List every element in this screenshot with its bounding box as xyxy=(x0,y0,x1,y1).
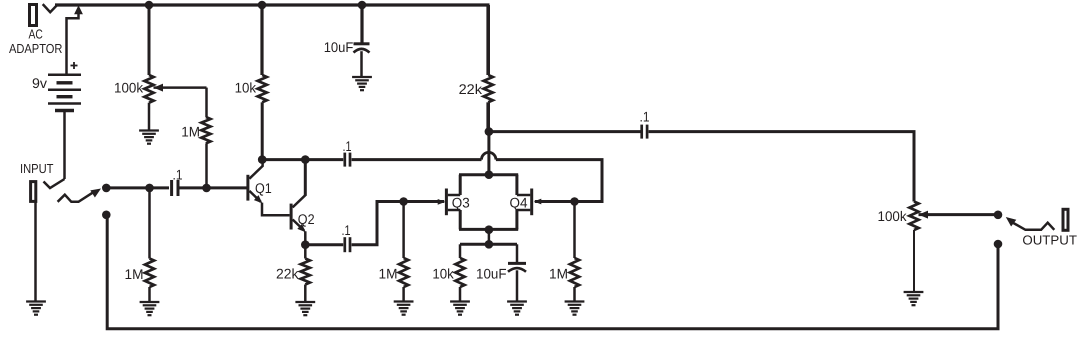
ground (22k Q2) xyxy=(295,301,315,303)
input switch arrow xyxy=(58,193,93,202)
node: input signal xyxy=(102,184,111,193)
AC adaptor jack xyxy=(30,5,37,26)
svg-text:10k: 10k xyxy=(432,266,454,282)
resistor 1M (Q4 base to ground) xyxy=(573,202,576,259)
capacitor .1 (Q2 emitter to Q3 base) xyxy=(343,237,346,252)
node: Q2 emitter xyxy=(301,240,310,249)
svg-text:1M: 1M xyxy=(181,123,200,139)
capacitor .1 (interstage feedback) xyxy=(343,153,346,167)
transistor Q1 xyxy=(246,175,249,201)
ground (10k timing) xyxy=(450,300,470,302)
node: rail / 10uF xyxy=(358,1,367,10)
ground (10uF filter) xyxy=(352,76,372,78)
node: box top xyxy=(485,170,494,179)
svg-text:1M: 1M xyxy=(125,266,144,282)
svg-text:.1: .1 xyxy=(173,166,183,182)
transistor Q3 xyxy=(445,189,448,216)
svg-text:100k: 100k xyxy=(114,80,144,96)
ground (volume pot) xyxy=(904,291,924,293)
wire: box top to 22k node xyxy=(487,132,490,175)
node: box bottom xyxy=(485,225,494,234)
wire: V+ top rail xyxy=(55,3,490,6)
svg-text:10uF: 10uF xyxy=(476,266,507,282)
wire: Q2 emitter to cap xyxy=(305,243,343,246)
node: rail / 10k xyxy=(258,1,267,10)
node: output signal xyxy=(994,211,1003,220)
svg-text:ADAPTOR: ADAPTOR xyxy=(9,41,63,56)
resistor 22k (supply to Q3 Q4) xyxy=(486,5,490,75)
node: rail / 100k pot xyxy=(145,1,154,10)
Q3 base arrowhead xyxy=(438,199,446,205)
label + xyxy=(71,65,78,67)
node: input return xyxy=(102,211,111,220)
svg-text:Q1: Q1 xyxy=(255,180,272,196)
resistor 1M (input to ground) xyxy=(148,188,151,259)
resistor 22k (Q2 emitter) xyxy=(304,245,307,259)
svg-text:10k: 10k xyxy=(235,80,257,96)
wire: RC line xyxy=(460,243,517,246)
svg-text:22k: 22k xyxy=(459,81,483,97)
wire: bottom signal return xyxy=(106,215,998,329)
wire: input jack sleeve to ground xyxy=(34,202,37,302)
output switch arrow xyxy=(1006,217,1017,227)
resistor 10k (timing) xyxy=(459,244,462,258)
svg-text:OUTPUT: OUTPUT xyxy=(1022,232,1077,247)
svg-text:1M: 1M xyxy=(549,266,568,282)
resistor 10k (Q1 Q2 collector load) xyxy=(260,5,263,75)
svg-text:AC: AC xyxy=(29,26,43,41)
ground (100k pot) xyxy=(139,129,159,131)
wire: collector node line xyxy=(262,158,343,161)
svg-text:22k: 22k xyxy=(276,266,299,282)
potentiometer 100k (volume) xyxy=(909,202,918,231)
resistor 1M (wiper to cap node) xyxy=(205,88,208,117)
svg-text:Q3: Q3 xyxy=(452,195,470,211)
svg-text:1M: 1M xyxy=(379,266,398,282)
node: wiper 1M junction xyxy=(202,184,211,193)
wire: 22k node to output cap xyxy=(489,130,641,133)
battery 9v xyxy=(48,73,81,76)
capacitor .1 (output coupling) xyxy=(640,125,643,139)
battery positive lead with plug arrow xyxy=(67,8,79,74)
svg-text:100k: 100k xyxy=(878,208,908,224)
ground (1M Q4) xyxy=(565,300,585,302)
node: 1M input junction xyxy=(145,184,154,193)
ground (10uF timing) xyxy=(507,300,527,302)
svg-text:INPUT: INPUT xyxy=(20,161,54,176)
svg-text:10uF: 10uF xyxy=(324,39,354,55)
ground (1M input) xyxy=(140,301,160,303)
Q4 base arrowhead xyxy=(534,199,542,205)
capacitor 10uF (supply filter) xyxy=(360,5,363,43)
capacitor .1 (input coupling) xyxy=(170,180,173,196)
svg-text:.1: .1 xyxy=(343,138,352,154)
svg-text:9v: 9v xyxy=(32,75,47,91)
potentiometer 100k (bias) xyxy=(148,5,151,75)
wire: cap to Q1 base xyxy=(178,186,247,189)
AC adaptor jack switch contact xyxy=(43,4,58,12)
output jack xyxy=(1063,209,1068,230)
transistor Q2 xyxy=(290,204,293,230)
node: 22k / output line xyxy=(485,127,494,136)
wire: battery negative down to input jack contact xyxy=(63,111,66,180)
node: Q3 base / 1M xyxy=(399,197,408,206)
input jack switch contact xyxy=(44,179,65,188)
wire: output cap to volume pot xyxy=(649,132,914,202)
input jack xyxy=(31,182,36,202)
transistor Q4 xyxy=(530,189,533,216)
wire: cap to Q3 base xyxy=(352,202,445,245)
capacitor 10uF (timing) xyxy=(516,244,519,262)
wire: cap to Q4 base loop xyxy=(352,158,482,161)
svg-text:.1: .1 xyxy=(640,108,650,124)
node: RC line xyxy=(485,240,494,249)
node: Q1 collector xyxy=(258,155,267,164)
svg-text:Q2: Q2 xyxy=(298,211,315,227)
wire: input node to coupling cap xyxy=(106,186,169,189)
wire: box bottom to RC line xyxy=(488,230,491,245)
svg-text:Q4: Q4 xyxy=(510,195,528,211)
ground (1M Q3) xyxy=(394,300,414,302)
svg-text:.1: .1 xyxy=(342,222,351,238)
wire: box emitters bottom xyxy=(459,228,518,231)
node: Q4 base / 1M xyxy=(570,197,579,206)
resistor 1M (Q3 base to ground) xyxy=(402,202,405,259)
node: Q2 collector xyxy=(301,155,310,164)
ground (input jack) xyxy=(26,300,46,302)
node: output return xyxy=(994,240,1003,249)
wire: box collectors top xyxy=(459,173,518,176)
